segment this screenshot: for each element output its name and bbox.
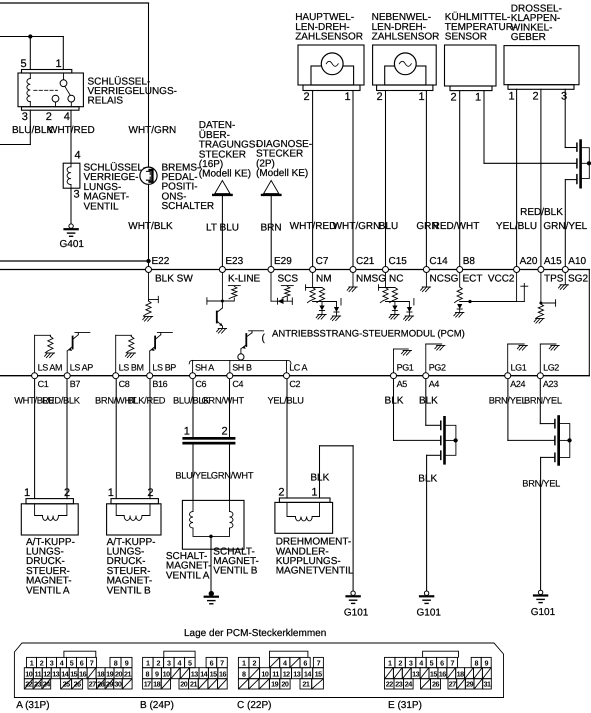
wire BRN/WHT C8 to solenoid B pin1: [115, 379, 117, 499]
svg-text:3: 3: [409, 658, 413, 667]
svg-text:13: 13: [412, 669, 419, 678]
svg-text:4: 4: [74, 150, 80, 162]
sensor Hauptwellen-Drehzahlsensor: [298, 45, 364, 91]
pin C6 net SH A: [190, 363, 215, 389]
connector E tab: [423, 651, 459, 657]
wire YEL/BLU sensor4-1 to A20: [516, 89, 518, 266]
connector in-line shift solenoids: [182, 437, 235, 445]
junction joint A24/A23: [568, 439, 572, 443]
wire RED/BLK B7 to solenoid A pin2: [66, 379, 68, 499]
svg-text:15: 15: [315, 669, 322, 678]
label Diagnose-Stecker: [256, 139, 312, 179]
svg-text:NC: NC: [389, 273, 403, 284]
svg-text:6: 6: [210, 658, 214, 667]
svg-text:K-LINE: K-LINE: [228, 273, 261, 284]
connector symbol DIAG triangle: [262, 181, 280, 195]
svg-text:16: 16: [439, 669, 446, 678]
svg-text:VENTIL: VENTIL: [84, 201, 119, 212]
svg-text:3: 3: [167, 658, 171, 667]
svg-text:C21: C21: [356, 256, 375, 267]
svg-text:SCS: SCS: [278, 273, 299, 284]
svg-text:SENSOR: SENSOR: [445, 32, 487, 43]
svg-text:6: 6: [80, 658, 84, 667]
svg-text:2: 2: [532, 91, 538, 103]
svg-text:A10: A10: [568, 256, 586, 267]
sensor Nebenwellen-Drehzahlsensor: [373, 45, 437, 91]
wire BLK A5 to joint: [394, 379, 441, 441]
pin A24 net LG1: [505, 363, 527, 389]
svg-text:G101: G101: [417, 608, 442, 619]
svg-text:18: 18: [153, 680, 160, 689]
wire BLK/RED B16 to solenoid B pin2: [149, 379, 151, 499]
svg-text:5: 5: [70, 658, 74, 667]
wire shift common to ground: [210, 536, 212, 591]
connector symbol DLC triangle: [213, 181, 231, 195]
wire sensor4-3 to joint connector: [565, 89, 576, 147]
wire BLU/BLK relay pin3 to left: [0, 110, 30, 144]
svg-text:C14: C14: [429, 256, 448, 267]
label sensor4 name: [511, 4, 562, 44]
pin C7: [310, 256, 329, 273]
switch Brems-Pedal-Positions-Schalter: [140, 167, 157, 184]
svg-text:2: 2: [40, 658, 44, 667]
svg-text:YEL/BLU: YEL/BLU: [268, 396, 304, 406]
svg-text:10: 10: [25, 669, 32, 678]
svg-text:1: 1: [311, 486, 317, 498]
svg-text:16: 16: [219, 669, 226, 678]
wire RED/BLK sensor4-2 to A15: [540, 89, 542, 266]
svg-text:2: 2: [450, 92, 456, 104]
svg-text:3: 3: [50, 658, 54, 667]
internal circuit LG2 ground: [540, 344, 559, 373]
svg-text:6: 6: [440, 658, 444, 667]
junction at E22: [147, 259, 151, 263]
svg-text:WHT/BLK: WHT/BLK: [128, 221, 173, 232]
svg-text:SH B: SH B: [232, 363, 252, 373]
svg-text:NM: NM: [316, 273, 332, 284]
label sensor1 name: [295, 12, 363, 42]
svg-text:A (31P): A (31P): [16, 700, 49, 711]
pin A10: [562, 256, 586, 273]
svg-text:VENTIL B: VENTIL B: [213, 566, 257, 577]
connector B pin grid: [143, 657, 228, 689]
sensor Drosselklappen-Winkel-Geber: [504, 46, 579, 90]
wire BLK torque pin1 to G101: [320, 446, 354, 591]
internal circuit LS BM resistor: [116, 335, 136, 372]
svg-text:G101: G101: [344, 608, 369, 619]
svg-text:27: 27: [449, 680, 456, 689]
svg-text:GRN/YEL: GRN/YEL: [543, 221, 587, 232]
svg-text:5: 5: [430, 658, 434, 667]
PCM bottom edge: [0, 375, 589, 377]
svg-text:24: 24: [405, 680, 412, 689]
svg-text:4: 4: [178, 658, 182, 667]
ground G101: [347, 591, 360, 603]
svg-text:1: 1: [24, 487, 30, 499]
svg-text:G101: G101: [531, 607, 556, 618]
svg-text:19: 19: [106, 669, 113, 678]
svg-text:15: 15: [210, 669, 217, 678]
wire WHT/RED relay pin4 to solenoid: [70, 110, 72, 163]
internal circuit SCS: [271, 273, 293, 305]
svg-text:C15: C15: [389, 256, 408, 267]
pin C14: [423, 256, 448, 273]
connector C tab: [270, 651, 308, 657]
svg-text:7: 7: [451, 658, 455, 667]
internal circuit NCSG ground: [421, 273, 431, 292]
svg-text:VCC2: VCC2: [488, 273, 515, 284]
svg-text:5: 5: [20, 58, 26, 70]
internal circuit ECT pull-up: [454, 273, 517, 317]
pin C15: [383, 256, 408, 273]
svg-text:4: 4: [419, 658, 423, 667]
svg-text:12: 12: [43, 669, 50, 678]
pin E29: [268, 256, 292, 273]
svg-text:TPS: TPS: [544, 273, 564, 284]
svg-text:SH A: SH A: [195, 363, 214, 373]
label Daten-Uebertragungs-Stecker: [199, 120, 259, 180]
wire BRN/YEL A24 to joint: [508, 379, 554, 441]
svg-text:C6: C6: [195, 379, 206, 389]
svg-text:LC A: LC A: [289, 363, 307, 373]
svg-text:17: 17: [144, 680, 151, 689]
internal circuit LS AM resistor: [35, 335, 55, 372]
svg-text:NCSG: NCSG: [430, 273, 459, 284]
svg-text:(Modell KE): (Modell KE): [199, 169, 251, 180]
svg-text:13: 13: [293, 669, 300, 678]
connector C pin grid: [238, 657, 323, 689]
pin A15: [538, 256, 562, 273]
pin B7 net LS AP: [64, 363, 93, 389]
wire LT BLU to E23: [221, 196, 223, 267]
internal circuit NMSG ground: [347, 273, 357, 292]
label solenoid A name: [26, 537, 75, 597]
relay coil: [27, 73, 30, 107]
svg-text:BLU/YEL: BLU/YEL: [175, 471, 211, 481]
svg-text:A24: A24: [510, 379, 525, 389]
internal circuit LS AP driver: [67, 333, 90, 373]
svg-text:SG2: SG2: [568, 273, 588, 284]
wire BLU/BLK C6 to connector: [192, 379, 194, 437]
svg-text:BRN/YEL: BRN/YEL: [522, 479, 560, 489]
internal circuit NM input: [306, 273, 341, 321]
svg-text:WHT/RED: WHT/RED: [290, 221, 337, 232]
svg-text:VENTIL B: VENTIL B: [107, 585, 151, 596]
svg-text:BLK: BLK: [310, 472, 329, 483]
wire BLU/YEL to shift A: [192, 445, 194, 501]
wire BLU sensor2-2 to C15: [385, 91, 387, 267]
pin B8: [457, 256, 476, 273]
svg-text:LG1: LG1: [511, 363, 527, 373]
svg-text:GRN/WHT: GRN/WHT: [211, 471, 254, 481]
label Schalt-Magnetventil B: [213, 546, 259, 576]
svg-text:A15: A15: [544, 256, 562, 267]
internal circuit K-LINE driver: [207, 273, 240, 333]
internal circuit PG2 ground: [426, 344, 445, 373]
svg-text:2: 2: [303, 91, 309, 103]
relay Schluessel-Verriegelungs-Relais: [18, 70, 83, 111]
pin E23: [219, 256, 243, 273]
svg-text:9: 9: [155, 669, 159, 678]
svg-text:21: 21: [190, 680, 197, 689]
svg-text:C1: C1: [38, 379, 49, 389]
label solenoid B name: [107, 537, 156, 597]
svg-text:7: 7: [317, 658, 321, 667]
svg-text:4: 4: [60, 658, 64, 667]
internal circuit SG2 ground: [559, 273, 569, 290]
svg-text:E23: E23: [225, 256, 243, 267]
svg-text:ECT: ECT: [463, 273, 483, 284]
label relay name: [88, 75, 177, 106]
svg-text:2: 2: [157, 658, 161, 667]
svg-text:1: 1: [108, 487, 114, 499]
svg-text:20: 20: [115, 669, 122, 678]
svg-text:2: 2: [398, 658, 402, 667]
svg-text:22: 22: [386, 680, 393, 689]
svg-text:A23: A23: [543, 379, 558, 389]
label sensor2 name: [372, 12, 440, 42]
svg-text:B8: B8: [463, 256, 476, 267]
svg-text:9: 9: [484, 658, 488, 667]
svg-text:1: 1: [388, 658, 392, 667]
wire LC A stub: [286, 360, 288, 372]
svg-text:C2: C2: [289, 379, 300, 389]
svg-text:E (31P): E (31P): [388, 700, 422, 711]
svg-text:WHT/GRN: WHT/GRN: [129, 125, 177, 136]
svg-text:A4: A4: [429, 379, 440, 389]
svg-text:ANTRIEBSSTRANG-STEUERMODUL (PC: ANTRIEBSSTRANG-STEUERMODUL (PCM): [272, 329, 465, 340]
label Schalt-Magnetventil A: [166, 551, 212, 581]
pin C8 net LS BM: [113, 363, 144, 389]
svg-text:31: 31: [484, 680, 491, 689]
svg-text:2: 2: [64, 487, 70, 499]
svg-text:20: 20: [180, 680, 187, 689]
wire sensor3-1 to joint connector: [484, 91, 576, 164]
pin C4 net SH B: [227, 363, 252, 389]
pin E22: [146, 256, 170, 273]
internal circuit PG1 ground: [394, 349, 412, 373]
svg-text:5: 5: [188, 658, 192, 667]
svg-text:7: 7: [220, 658, 224, 667]
wire GRN/YEL joint to A10: [565, 180, 576, 267]
svg-text:2: 2: [46, 111, 52, 123]
svg-text:11: 11: [272, 669, 279, 678]
svg-text:21: 21: [124, 669, 131, 678]
svg-text:E22: E22: [152, 256, 170, 267]
pin A5 net PG1: [391, 363, 414, 389]
pin C21: [350, 256, 375, 273]
ground G101: [534, 590, 547, 602]
connector E pin grid: [385, 657, 492, 689]
internal circuit LG1 ground: [508, 344, 528, 373]
svg-text:VENTIL A: VENTIL A: [26, 585, 70, 596]
svg-text:VENTIL A: VENTIL A: [166, 570, 210, 581]
junction shift solenoid common: [209, 535, 212, 538]
svg-text:B7: B7: [70, 379, 81, 389]
svg-text:BLK SW: BLK SW: [155, 273, 193, 284]
wire BRN to E29: [270, 196, 272, 267]
connector joint A24/A23: [555, 415, 570, 466]
pin A23 net LG2: [537, 363, 559, 389]
wire feed to E22: [0, 260, 149, 262]
svg-text:RED/WHT: RED/WHT: [433, 221, 480, 232]
svg-text:LS AP: LS AP: [70, 363, 93, 373]
svg-text:15: 15: [430, 669, 437, 678]
internal circuit BLK SW input: [143, 273, 159, 321]
connector housing outline: [14, 643, 503, 698]
connector A pin grid: [24, 657, 132, 689]
svg-text:13: 13: [191, 669, 198, 678]
solenoid Drehmoment-Wandler-Kupplungs-Magnetventil: [275, 498, 333, 533]
svg-text:27: 27: [89, 680, 96, 689]
svg-text:GEBER: GEBER: [511, 32, 546, 43]
svg-text:4: 4: [64, 111, 70, 123]
internal circuit NC input: [379, 273, 414, 321]
svg-text:4: 4: [283, 658, 287, 667]
svg-text:23: 23: [395, 680, 402, 689]
label solenoid name: [84, 162, 147, 213]
wire WHT/GRN sensor1-1 to C21: [352, 91, 354, 267]
svg-text:WHT/RED: WHT/RED: [48, 125, 95, 136]
label sensor3 name: [445, 11, 516, 42]
svg-text:BLK: BLK: [419, 396, 438, 407]
wire SH B stub: [229, 360, 231, 372]
connector A tab: [64, 651, 96, 657]
PCM top edge: [0, 269, 589, 271]
svg-text:8: 8: [146, 669, 150, 678]
relay coil-switch link dashed: [34, 89, 58, 91]
svg-text:26: 26: [432, 680, 439, 689]
svg-text:2: 2: [222, 426, 228, 438]
wire BLK joint to G101: [427, 455, 441, 590]
wire BLK A4 to joint: [426, 379, 440, 425]
wire top feed to WHT/GRN: [0, 2, 149, 4]
svg-text:29: 29: [466, 680, 473, 689]
wire BRN/YEL A23 to joint: [540, 379, 554, 424]
ground shift solenoids: [205, 591, 218, 603]
internal circuit LS BP driver: [150, 333, 173, 373]
connector joint 3-pin: [577, 139, 589, 188]
internal circuit VCC2 supply: [517, 273, 528, 302]
svg-text:19: 19: [271, 680, 278, 689]
svg-text:RED/BLK: RED/BLK: [520, 207, 563, 218]
svg-text:ZAHLSENSOR: ZAHLSENSOR: [372, 32, 440, 43]
wire GRN sensor2-1 to C14: [425, 91, 427, 267]
svg-text:30: 30: [114, 680, 121, 689]
svg-text:LS BM: LS BM: [119, 363, 144, 373]
wire WHT/BLU C1 to solenoid A pin1: [34, 379, 36, 499]
svg-text:GRN/WHT: GRN/WHT: [202, 396, 245, 406]
svg-text:BLK: BLK: [385, 396, 404, 407]
junction relay feed: [28, 35, 32, 39]
svg-text:SCHALTER: SCHALTER: [162, 201, 215, 212]
svg-text:2: 2: [278, 486, 284, 498]
svg-text:18: 18: [457, 669, 464, 678]
svg-text:11: 11: [34, 669, 41, 678]
svg-text:13: 13: [52, 669, 59, 678]
svg-text:20: 20: [281, 680, 288, 689]
svg-text:2: 2: [252, 658, 256, 667]
label brake switch name: [162, 162, 215, 212]
svg-text:C8: C8: [119, 379, 130, 389]
svg-text:LT BLU: LT BLU: [206, 223, 239, 234]
pin C2 net LC A: [284, 363, 308, 389]
svg-text:BLK: BLK: [418, 474, 437, 485]
internal circuit shift solenoid driver: [241, 331, 264, 354]
svg-text:(Modell KE): (Modell KE): [256, 168, 308, 179]
label torque solenoid name: [276, 537, 354, 577]
solenoid A/T-Kupplungs-Druck-Steuer-Magnetventil A: [21, 499, 78, 535]
svg-text:ZAHLSENSOR: ZAHLSENSOR: [295, 32, 363, 43]
ground G101: [420, 591, 433, 603]
svg-text:3: 3: [73, 189, 79, 201]
svg-text:1: 1: [475, 92, 481, 104]
junction joint connector common: [587, 161, 591, 165]
svg-text:C (22P): C (22P): [237, 700, 271, 711]
svg-text:7: 7: [90, 658, 94, 667]
svg-text:PG1: PG1: [397, 363, 414, 373]
svg-text:A20: A20: [520, 256, 538, 267]
svg-text:14: 14: [304, 669, 311, 678]
connector B tab: [164, 651, 195, 657]
svg-text:6: 6: [303, 658, 307, 667]
svg-text:Lage der PCM-Steckerklemmen: Lage der PCM-Steckerklemmen: [184, 628, 326, 639]
svg-text:1: 1: [55, 58, 61, 70]
PCM right edge: [588, 270, 590, 376]
svg-text:LS AM: LS AM: [38, 363, 63, 373]
svg-text:3: 3: [22, 111, 28, 123]
svg-text:YEL/BLU: YEL/BLU: [496, 221, 537, 232]
junction joint A5/A4: [454, 439, 458, 443]
svg-text:C7: C7: [316, 256, 329, 267]
sensor Kuehlmittel-Temperatur-Sensor: [445, 45, 497, 91]
ground G401: [65, 224, 78, 236]
wire solenoid to ground: [70, 188, 72, 223]
wire SH A stub: [192, 360, 194, 372]
connector joint A5/A4: [441, 416, 456, 465]
wire WHT/RED sensor1-2 to C7: [312, 91, 314, 267]
svg-text:BLK/RED: BLK/RED: [128, 396, 166, 406]
svg-text:BLU: BLU: [379, 221, 398, 232]
svg-text:BRN: BRN: [260, 223, 281, 234]
solenoid A/T-Kupplungs-Druck-Steuer-Magnetventil B: [107, 499, 161, 535]
svg-text:1: 1: [344, 91, 350, 103]
pin C1 net LS AM: [32, 363, 63, 389]
svg-text:12: 12: [283, 669, 290, 678]
svg-text:LS BP: LS BP: [152, 363, 176, 373]
svg-text:1: 1: [418, 91, 424, 103]
svg-text:PG2: PG2: [429, 363, 446, 373]
svg-text:10: 10: [261, 669, 268, 678]
svg-text:WHT/GRN: WHT/GRN: [333, 221, 381, 232]
wire shift brace: [189, 360, 291, 363]
pin A20: [514, 256, 538, 273]
wire WHT/GRN to PCM E22: [148, 3, 150, 267]
svg-text:RED/BLK: RED/BLK: [42, 396, 81, 406]
svg-text:LG2: LG2: [543, 363, 559, 373]
svg-text:BRN/YEL: BRN/YEL: [524, 396, 562, 406]
svg-text:C4: C4: [232, 379, 243, 389]
svg-text:A5: A5: [397, 379, 408, 389]
svg-text:1: 1: [242, 658, 246, 667]
svg-text:1: 1: [508, 91, 514, 103]
svg-text:NMSG: NMSG: [356, 273, 386, 284]
pin B16 net LS BP: [147, 363, 177, 389]
svg-text:9: 9: [125, 658, 129, 667]
svg-text:E29: E29: [274, 256, 292, 267]
junction ECT node: [469, 300, 472, 303]
svg-text:8: 8: [474, 658, 478, 667]
